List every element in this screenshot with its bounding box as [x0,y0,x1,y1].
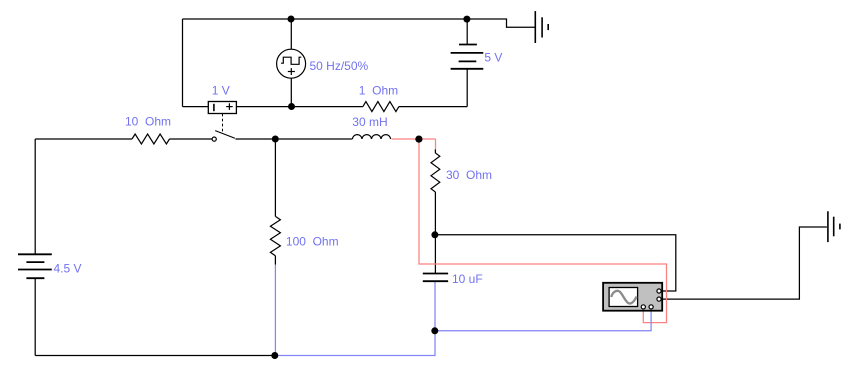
wire resistor R1 to switch [170,138,213,140]
node junction capacitor bottom [431,327,438,334]
wire left end middle row [35,138,132,140]
svg-text:50 Hz/50%: 50 Hz/50% [310,59,369,73]
inductor L1 30 mH [352,135,390,139]
switch SW1 control dashed link [222,114,224,133]
wire scope to ground G2 [661,227,827,299]
wire 5V battery top lead [466,19,468,45]
oscilloscope SCOPE1 terminal bottom-left [641,305,645,309]
ground G2 [828,211,840,242]
wire bottom rail black part [35,355,275,357]
wire battery V1 bottom to bottom rail [34,278,36,355]
wire left column down to battery V1 [34,139,36,254]
wire square source top lead [290,19,292,49]
wire blue resistor R4 bottom to bottom rail [274,265,276,356]
wire node A to scope channel A [435,235,675,291]
battery V3 1 V boxed cell [208,102,236,114]
wire blue junction to scope bottom-right terminal [435,309,651,331]
resistor R1 10 Ohm [132,134,170,144]
svg-text:4.5 V: 4.5 V [54,261,82,275]
svg-text:30 Ohm: 30 Ohm [446,168,492,182]
wire 5V battery bottom lead [466,69,468,107]
svg-text:100 Ohm: 100 Ohm [286,235,339,249]
oscilloscope SCOPE1 terminal right-top [657,289,661,293]
wire resistor R4 bottom stub [274,256,276,265]
square wave source U1 circle [277,49,306,78]
wire square source bottom lead [290,78,292,106]
wire junction down to resistor R4 [274,139,276,216]
node junction top left [288,16,295,23]
oscilloscope SCOPE1 terminal right-bottom [657,297,661,301]
svg-text:5 V: 5 V [484,51,502,65]
square wave source U1 plus sign [288,71,295,73]
switch SW1 lever [215,131,235,139]
ground G1 [535,11,548,43]
switch SW1 pole circle [212,137,216,141]
wire red junction down to resistor R3 top [435,139,437,150]
wire bottom row of top loop (left of battery V3) [183,106,209,108]
capacitor C1 10 uF [423,274,448,282]
node junction top right [463,16,470,23]
wire resistor R2 right lead to 5V branch [399,106,467,108]
square wave source U1 waveform glyph [281,57,301,64]
svg-text:10 uF: 10 uF [452,272,483,286]
oscilloscope SCOPE1 terminal bottom-right [649,305,653,309]
wire junction to ground G1 [467,19,535,27]
node junction middle row [272,136,279,143]
wire red inductor to junction [392,138,436,140]
resistor R4 100 Ohm [270,216,280,255]
wire top loop [183,18,468,20]
oscilloscope SCOPE1 body [603,283,662,311]
resistor R2 1 Ohm [363,102,399,112]
battery V2 5 V [451,45,484,69]
wire blue bottom rail to capacitor bottom junction [275,331,435,356]
wire left side of top loop [182,19,184,107]
svg-text:30 mH: 30 mH [352,115,387,129]
wire node A down to capacitor C1 [434,235,436,273]
oscilloscope SCOPE1 trace [611,291,636,304]
wire red node B to scope bottom-left terminal [419,139,667,323]
wire resistor R3 bottom to node A [434,192,436,235]
wire blue capacitor C1 bottom lead [434,281,436,331]
battery V1 4.5 V [18,254,52,278]
wire resistor R3 top black stub [434,149,436,153]
svg-text:1 V: 1 V [212,84,230,98]
wire battery V3 to node junction [236,106,363,108]
node B junction [415,136,422,143]
resistor R3 30 Ohm [431,153,440,192]
node junction source bottom [288,103,295,110]
node junction bottom rail [271,352,278,359]
node A junction [431,231,438,238]
wire switch to junction and inductor [235,138,352,140]
svg-text:10 Ohm: 10 Ohm [125,115,171,129]
svg-text:1 Ohm: 1 Ohm [359,84,398,98]
oscilloscope SCOPE1 screen [609,288,638,307]
